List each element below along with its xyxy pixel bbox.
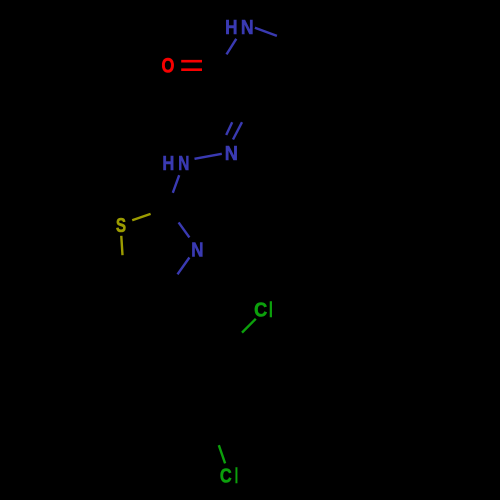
svg-text:l: l: [269, 298, 273, 322]
svg-text:N: N: [241, 17, 254, 39]
svg-text:C: C: [220, 464, 232, 487]
svg-text:N: N: [225, 142, 238, 165]
svg-text:l: l: [235, 463, 238, 488]
svg-text:O: O: [162, 55, 175, 78]
svg-text:N: N: [191, 238, 203, 261]
svg-text:H: H: [162, 151, 174, 174]
svg-text:S: S: [116, 214, 126, 237]
svg-text:C: C: [254, 299, 267, 322]
svg-text:N: N: [178, 152, 189, 175]
svg-text:H: H: [225, 15, 237, 38]
